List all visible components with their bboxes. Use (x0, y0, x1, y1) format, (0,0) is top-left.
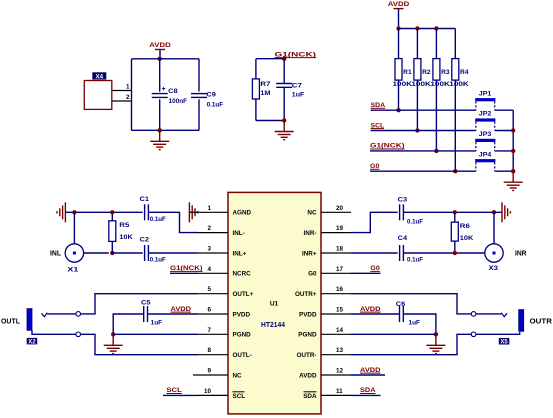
jack X2 tip contact spring (42, 313, 48, 317)
wire ground row to C1 (74, 211, 142, 213)
wire AVDD top rail (132, 58, 200, 60)
ground (pin 1 AGND, sideways) (189, 202, 197, 222)
pin 6 stub (198, 313, 228, 315)
jack X2 sleeve contact pin (76, 332, 81, 337)
wire signal row to C2 (112, 252, 142, 254)
junction (R5 / signal row) (110, 251, 114, 255)
wire C9 bottom lead (198, 99, 200, 130)
svg-text:INR-: INR- (304, 230, 317, 237)
pin 1 stub (198, 211, 228, 213)
svg-text:14: 14 (336, 327, 344, 334)
connector X5 (phone jack OUTR) (519, 310, 524, 332)
junction (ground row / X1 shield) (72, 210, 76, 214)
svg-text:8: 8 (207, 347, 211, 354)
wire bottom rail (R7 block) (256, 120, 284, 122)
wire X1 tip to R5 (84, 252, 109, 254)
wire R3 top lead (435, 29, 437, 59)
jack X5 tip contact spring (501, 313, 507, 317)
junction (pin 14 / ground) (434, 332, 438, 336)
resistor R5 (109, 221, 116, 242)
jumper JP1 (475, 98, 495, 101)
svg-text:JP3: JP3 (479, 131, 492, 138)
svg-text:JP4: JP4 (479, 151, 492, 158)
svg-text:C7: C7 (292, 83, 302, 90)
wire pin 10 net stub (163, 394, 198, 396)
svg-text:R4: R4 (460, 69, 469, 76)
overline on SDA pin name (304, 391, 317, 393)
connector X4 (84, 81, 112, 110)
ground (jumper rail) (504, 171, 523, 190)
svg-text:R5: R5 (119, 222, 129, 229)
junction (rail / JP4) (511, 169, 515, 173)
pin 2 stub (198, 232, 228, 234)
svg-text:AVDD: AVDD (388, 1, 410, 8)
svg-text:3: 3 (207, 246, 211, 253)
svg-text:SDA: SDA (303, 393, 317, 400)
pin 15 stub (321, 313, 351, 315)
resistor R1 (395, 59, 402, 81)
pin 7 stub (198, 333, 228, 335)
label X4 (selected designator) (92, 72, 106, 79)
pin 14 stub (321, 333, 351, 335)
wire R5 bottom lead (111, 241, 113, 253)
wire G0 row (370, 170, 476, 172)
svg-text:10K: 10K (460, 235, 474, 242)
svg-text:2: 2 (126, 94, 130, 101)
wire pin 17 net stub (351, 272, 381, 274)
wire left branch to connector (131, 59, 133, 131)
svg-text:X3: X3 (489, 265, 499, 272)
wire C7 bottom lead (283, 87, 285, 120)
svg-text:6: 6 (207, 307, 211, 314)
svg-text:PGND: PGND (233, 332, 252, 339)
pin 11 stub (321, 394, 351, 396)
svg-text:INL-: INL- (233, 230, 245, 237)
junction (rail / JP3) (511, 149, 515, 153)
wire R3 bottom lead (435, 80, 437, 151)
capacitor C2 (145, 245, 149, 261)
capacitor C1 (145, 204, 149, 220)
svg-text:100nF: 100nF (169, 98, 188, 105)
wire pin 16 (OUTR+) to contact (351, 294, 471, 314)
junction (AVDD rail / C8) (158, 57, 162, 61)
jumper JP2 (475, 118, 495, 121)
svg-text:NC: NC (233, 372, 243, 379)
svg-text:18: 18 (336, 246, 344, 253)
svg-text:C4: C4 (398, 235, 408, 242)
svg-text:10: 10 (204, 388, 212, 395)
svg-text:1: 1 (207, 205, 211, 212)
svg-text:100K: 100K (393, 81, 413, 88)
wire C6 to ground junction (403, 314, 436, 334)
wire R6 bottom lead (454, 241, 456, 253)
wire sleeve to contact (32, 330, 76, 334)
wire X3 shield lead (493, 212, 495, 244)
wire tip to contact (47, 313, 76, 315)
pin 4 stub (198, 272, 228, 274)
wire pin1 ground stem (189, 211, 198, 213)
svg-text:OUTR: OUTR (530, 318, 553, 325)
svg-text:0.1uF: 0.1uF (407, 218, 423, 225)
wire SDA row (371, 109, 476, 111)
capacitor C3 (400, 204, 404, 220)
wire R4 bottom lead (454, 80, 456, 171)
svg-text:AVDD: AVDD (299, 372, 317, 379)
svg-text:X4: X4 (95, 73, 103, 80)
wire C5 to ground junction (113, 314, 143, 334)
svg-text:R3: R3 (441, 69, 450, 76)
svg-text:7: 7 (207, 327, 211, 334)
wire sleeve to contact (right) (476, 332, 520, 334)
wire pin 18 (INR+) to C4 (351, 252, 398, 254)
svg-text:100K: 100K (430, 81, 450, 88)
resistor R3 (433, 59, 440, 81)
wire R7 bottom lead (255, 99, 257, 121)
svg-text:R7: R7 (260, 81, 270, 88)
svg-text:NCRC: NCRC (233, 271, 252, 278)
svg-text:AGND: AGND (233, 210, 252, 217)
wire JP3 to ground rail (495, 150, 514, 152)
connector X1 (RCA input left) (65, 244, 83, 262)
junction (R1 / net row) (396, 108, 400, 112)
svg-text:0.1uF: 0.1uF (150, 257, 166, 264)
wire R5 top lead (111, 212, 113, 221)
junction (AVDD / R1) (396, 26, 400, 30)
svg-text:15: 15 (336, 307, 344, 314)
wire C4 to X3 tip (403, 252, 484, 254)
svg-text:OUTL-: OUTL- (233, 352, 252, 359)
wire G1(NCK) row (370, 150, 476, 152)
jumper JP3 (475, 139, 495, 142)
wire R2 top lead (416, 29, 418, 59)
wire contact to tip spring (476, 313, 501, 315)
capacitor C6 (400, 306, 404, 322)
svg-text:JP2: JP2 (479, 111, 492, 118)
junction (rail / JP2) (511, 128, 515, 132)
ground (left input rail, sideways) (57, 202, 65, 222)
junction (ground row / R5) (110, 210, 114, 214)
wire pullup top rail (399, 28, 456, 30)
wire R1 bottom lead (398, 80, 400, 110)
wire pin 4 net stub (170, 272, 198, 274)
ground (R7 block) (275, 121, 294, 140)
wire C8 bottom lead (159, 99, 161, 130)
wire contact to pin 13 (OUTR-) (351, 334, 471, 354)
ground (power block) (150, 130, 169, 149)
svg-text:OUTL+: OUTL+ (233, 291, 254, 298)
svg-text:2: 2 (207, 225, 211, 232)
pin 13 stub (321, 354, 351, 356)
svg-text:1uF: 1uF (409, 319, 421, 326)
svg-text:0.1uF: 0.1uF (407, 256, 423, 263)
svg-text:1: 1 (126, 84, 130, 91)
svg-text:NC: NC (307, 210, 317, 217)
junction (R2 / net row) (415, 128, 419, 132)
svg-text:JP1: JP1 (479, 90, 492, 97)
svg-text:INL+: INL+ (233, 250, 247, 257)
junction (ground row / R6) (453, 210, 457, 214)
wire R7 top lead (255, 59, 257, 79)
svg-text:C1: C1 (140, 196, 150, 203)
junction (rail / C7) (282, 57, 286, 61)
svg-text:OUTL: OUTL (1, 318, 21, 325)
svg-text:INR+: INR+ (302, 250, 317, 257)
pin 1 of X4 (112, 90, 132, 92)
pin 9 stub (198, 374, 228, 376)
junction (rail / R3) (434, 26, 438, 30)
pin 2 of X4 (112, 100, 132, 102)
svg-text:HT2144: HT2144 (261, 322, 285, 329)
svg-text:X1: X1 (67, 266, 79, 273)
jack X5 tip contact pin (471, 312, 476, 317)
svg-text:OUTR+: OUTR+ (295, 291, 317, 298)
connector X3 (RCA input right) (485, 244, 503, 262)
svg-text:C2: C2 (140, 237, 150, 244)
junction (R4 / net row) (453, 169, 457, 173)
wire pin 6 (PVDD) to C5 (148, 313, 198, 315)
pin 20 stub (321, 211, 351, 213)
svg-text:0.1uF: 0.1uF (150, 216, 166, 223)
svg-text:+: + (162, 86, 166, 93)
svg-text:PVDD: PVDD (299, 311, 317, 318)
wire pin 12 net stub (351, 374, 385, 376)
wire JP2 to ground rail (495, 130, 514, 132)
capacitor C9 (191, 94, 207, 98)
wire ground bottom rail (132, 129, 200, 131)
svg-text:R2: R2 (422, 69, 431, 76)
svg-text:11: 11 (336, 388, 343, 395)
junction (rail / R2) (415, 26, 419, 30)
label X5 (selected designator) (499, 338, 510, 345)
svg-text:PGND: PGND (298, 332, 317, 339)
wire C1 to pin 2 (INL-) (148, 212, 198, 232)
ground (right input rail, sideways) (502, 202, 510, 222)
svg-text:X2: X2 (28, 340, 36, 346)
pin 8 stub (198, 354, 228, 356)
capacitor C5 (144, 306, 148, 322)
pin 3 stub (198, 252, 228, 254)
wire JP4 to ground rail (495, 170, 514, 172)
overline on SCL pin name (233, 391, 245, 393)
wire jumper ground rail (512, 110, 514, 171)
wire C8 top lead (159, 59, 161, 92)
pin 16 stub (321, 293, 351, 295)
svg-text:X5: X5 (500, 340, 508, 346)
wire pin 7 (PGND) (113, 333, 198, 335)
wire R6 top lead (454, 212, 456, 222)
wire C9 top lead (198, 59, 200, 92)
svg-text:9: 9 (207, 368, 211, 375)
wire pin 14 (PGND) (351, 333, 436, 335)
ground (pin 14) (426, 334, 445, 353)
svg-text:19: 19 (336, 225, 344, 232)
pin 9 NC stub extension (193, 374, 198, 376)
svg-text:4: 4 (207, 266, 211, 273)
pin 18 stub (321, 252, 351, 254)
wire JP1 to ground rail (495, 109, 514, 111)
svg-text:R6: R6 (460, 223, 470, 230)
pin 5 stub (198, 293, 228, 295)
wire R2 bottom lead (416, 80, 418, 130)
pin 19 stub (321, 232, 351, 234)
junction (bottom rail / ground) (282, 118, 286, 122)
jumper JP4 (475, 159, 495, 162)
capacitor C8 (152, 94, 168, 98)
connector X2 (phone jack OUTL) (27, 309, 32, 331)
svg-text:C5: C5 (141, 300, 151, 307)
svg-text:10K: 10K (119, 234, 133, 241)
svg-text:20: 20 (336, 205, 344, 212)
svg-text:1uF: 1uF (292, 91, 305, 98)
wire SCL row (371, 130, 476, 132)
wire C7 top lead (283, 59, 285, 84)
svg-text:INR: INR (515, 250, 527, 257)
svg-text:C8: C8 (168, 88, 178, 95)
junction (bottom rail / ground) (158, 128, 162, 132)
svg-text:17: 17 (336, 266, 344, 273)
pin 12 stub (321, 374, 351, 376)
label X2 (selected designator) (27, 338, 38, 345)
svg-text:1uF: 1uF (151, 319, 163, 326)
svg-text:OUTR-: OUTR- (297, 352, 317, 359)
wire pin 15 (PVDD) to C6 (351, 313, 400, 315)
capacitor C4 (400, 245, 404, 261)
wire C3 to ground row (403, 211, 494, 213)
op-amp / audio amplifier IC U1 HT2144 body (228, 192, 321, 414)
jack X2 tip contact pin (76, 312, 81, 317)
svg-text:12: 12 (336, 368, 344, 375)
resistor R6 (451, 222, 458, 241)
resistor R7 (252, 79, 259, 99)
jack X5 sleeve contact pin (471, 332, 476, 337)
junction (R3 / net row) (434, 149, 438, 153)
wire contact to pin 8 (OUTL-) (81, 334, 199, 354)
svg-text:C3: C3 (398, 196, 408, 203)
ground (pin 7) (104, 334, 123, 353)
wire pin 19 (INR-) to C3 (351, 212, 398, 232)
svg-text:13: 13 (336, 347, 344, 354)
resistor R4 (452, 59, 459, 81)
junction (ground row / X3 shield) (492, 210, 496, 214)
svg-text:5: 5 (207, 286, 211, 293)
wire C2 to pin 3 (INL+) (148, 252, 198, 254)
svg-text:100K: 100K (449, 81, 469, 88)
svg-text:C9: C9 (206, 91, 216, 98)
svg-text:C6: C6 (396, 301, 406, 308)
wire R1 top lead (398, 29, 400, 59)
svg-text:0.1uF: 0.1uF (207, 101, 224, 108)
svg-text:AVDD: AVDD (149, 42, 171, 49)
svg-text:SCL: SCL (233, 393, 246, 400)
wire pin 11 net stub (351, 394, 381, 396)
wire R4 top lead (454, 29, 456, 59)
svg-text:16: 16 (336, 286, 344, 293)
wire G1(NCK) rail (256, 58, 284, 60)
capacitor C7 (276, 84, 292, 88)
resistor R2 (414, 59, 421, 81)
wire ground stem (right) (494, 211, 502, 213)
svg-text:G0: G0 (308, 271, 317, 278)
wire contact to pin 5 (OUTL+) (81, 294, 199, 314)
svg-text:PVDD: PVDD (233, 311, 251, 318)
junction (pin 7 / ground) (111, 332, 115, 336)
svg-text:U1: U1 (270, 301, 279, 308)
svg-text:1M: 1M (260, 90, 270, 97)
pin 17 stub (321, 272, 351, 274)
wire ground stem (65, 211, 74, 213)
junction (signal row / R6) (453, 251, 457, 255)
pin 10 stub (198, 394, 228, 396)
svg-text:R1: R1 (403, 69, 412, 76)
svg-text:100K: 100K (411, 81, 431, 88)
svg-text:INL: INL (50, 250, 62, 257)
wire X1 shield lead (73, 212, 75, 244)
